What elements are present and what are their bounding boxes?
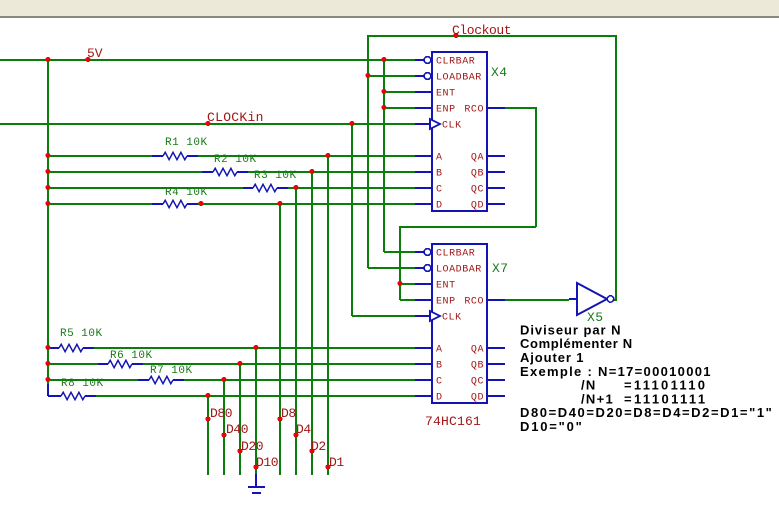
junction left rail / row R4 xyxy=(45,201,50,206)
wire row R3 to X4 C xyxy=(288,187,415,189)
X7 pin QA stub xyxy=(488,347,505,349)
svg-text:CLRBAR: CLRBAR xyxy=(436,57,475,68)
junction row R8 / net D80 xyxy=(205,393,210,398)
X4 pin RCO stub xyxy=(488,107,505,109)
svg-text:A: A xyxy=(436,345,443,356)
resistor R7 10K xyxy=(138,379,149,381)
junction 5V rail / distribution vertical xyxy=(381,57,386,62)
svg-text:Exemple : N=17=00010001: Exemple : N=17=00010001 xyxy=(520,364,712,379)
IC X7 74HC161 body xyxy=(432,244,487,403)
svg-text:A: A xyxy=(436,153,443,164)
svg-text:LOADBAR: LOADBAR xyxy=(436,265,482,276)
svg-text:R3 10K: R3 10K xyxy=(254,170,297,182)
wire row R1 to X4 A xyxy=(198,155,415,157)
svg-text:C: C xyxy=(436,185,443,196)
svg-text:D40: D40 xyxy=(226,422,248,437)
node D80 anchor xyxy=(205,416,210,421)
junction left rail / row R3 xyxy=(45,185,50,190)
wire RCO feedback vertical xyxy=(399,226,401,300)
X4 pin ENP stub xyxy=(415,107,432,109)
wire RCO feedback horizontal xyxy=(400,226,536,228)
toolbar strip background xyxy=(0,0,779,16)
svg-text:D: D xyxy=(436,201,443,212)
wire row R7 to X7 C xyxy=(184,379,415,381)
wire X7 ENP branch xyxy=(400,299,415,301)
svg-text:/N: /N xyxy=(581,378,597,393)
junction RCO feedback / X7 ENT xyxy=(397,281,402,286)
wire net D40 vertical xyxy=(223,379,225,475)
wire row R4 to X4 D xyxy=(198,203,415,205)
junction row R7 / net D40 xyxy=(221,377,226,382)
junction row R5 / net D10 xyxy=(253,345,258,350)
svg-text:Ajouter 1: Ajouter 1 xyxy=(520,350,584,365)
svg-text:QB: QB xyxy=(471,169,484,180)
svg-text:ENT: ENT xyxy=(436,89,456,100)
resistor R8 10K xyxy=(48,395,61,397)
wire left rail lower blue elbow xyxy=(47,384,49,396)
wire row R2 left segment xyxy=(48,171,202,173)
ground symbol xyxy=(255,474,257,487)
svg-text:R6 10K: R6 10K xyxy=(110,350,153,362)
wire row R2 to X4 B xyxy=(248,171,415,173)
wire X4 ENT branch xyxy=(384,91,415,93)
svg-text:R8 10K: R8 10K xyxy=(61,378,104,390)
inverter X5 body xyxy=(577,283,607,315)
svg-text:Clockout: Clockout xyxy=(452,23,511,38)
svg-text:R5 10K: R5 10K xyxy=(60,328,103,340)
svg-text:RCO: RCO xyxy=(464,297,484,308)
X4 pin QB stub xyxy=(488,171,505,173)
wire X7 LOADBAR branch xyxy=(368,267,415,269)
junction 5V rail / left rail xyxy=(45,57,50,62)
X4 pin CLK stub with clock wedge xyxy=(415,123,430,125)
wire net D2 vertical xyxy=(311,171,313,475)
svg-text:X7: X7 xyxy=(492,261,509,276)
wire X7 CLK branch xyxy=(352,315,415,317)
wire net D1 vertical xyxy=(327,155,329,475)
svg-text:CLOCKin: CLOCKin xyxy=(207,110,264,125)
wire CLOCKin to X7 CLK vertical xyxy=(351,123,353,316)
wire X4 ENP branch xyxy=(384,107,415,109)
junction Clockout / X4 LOADBAR xyxy=(365,73,370,78)
svg-text:RCO: RCO xyxy=(464,105,484,116)
X7 pin LOADBAR stub with bubble xyxy=(415,267,424,269)
wire X7 CLRBAR branch xyxy=(384,251,415,253)
junction left rail / row R6 xyxy=(45,361,50,366)
wire X7 RCO to X5 input xyxy=(505,299,569,301)
svg-text:X4: X4 xyxy=(491,65,508,80)
resistor R6 10K xyxy=(98,363,108,365)
node D40 anchor xyxy=(221,432,226,437)
wire net D4 vertical xyxy=(295,187,297,475)
node Clockout label anchor xyxy=(453,33,458,38)
wire row R8 to X7 D xyxy=(96,395,415,397)
X7 pin B stub xyxy=(415,363,432,365)
svg-text:CLK: CLK xyxy=(442,121,462,132)
svg-text:QA: QA xyxy=(471,345,484,356)
svg-text:D80=D40=D20=D8=D4=D2=D1="1": D80=D40=D20=D8=D4=D2=D1="1" xyxy=(520,405,773,420)
X4 pin A stub xyxy=(415,155,432,157)
wire X4 LOADBAR branch xyxy=(368,75,415,77)
wire net D80 vertical xyxy=(207,395,209,475)
svg-text:D10: D10 xyxy=(256,455,278,470)
X7 pin QB stub xyxy=(488,363,505,365)
node 5V label anchor xyxy=(85,57,90,62)
junction row R4 / net D8 xyxy=(277,201,282,206)
wire Clockout to X7 LOADBAR vertical xyxy=(367,35,369,268)
node D8 anchor xyxy=(277,416,282,421)
X7 pin A stub xyxy=(415,347,432,349)
svg-text:ENP: ENP xyxy=(436,297,456,308)
X4 pin QD stub xyxy=(488,203,505,205)
wire Clockout horizontal xyxy=(368,35,616,37)
wire left 5V vertical rail xyxy=(47,59,49,385)
svg-text:B: B xyxy=(436,169,443,180)
svg-text:/N+1: /N+1 xyxy=(581,391,614,406)
junction row R2 / net D2 xyxy=(309,169,314,174)
X4 pin QC stub xyxy=(488,187,505,189)
wire row R6 to X7 B xyxy=(143,363,415,365)
svg-text:D10="0": D10="0" xyxy=(520,419,584,434)
wire row R4 left segment xyxy=(48,203,152,205)
junction left rail / row R1 xyxy=(45,153,50,158)
wire Clockout right vertical xyxy=(615,35,617,300)
junction left rail / row R2 xyxy=(45,169,50,174)
wire X7 ENT branch xyxy=(400,283,415,285)
svg-text:=11101111: =11101111 xyxy=(624,391,707,406)
svg-text:QD: QD xyxy=(471,201,484,212)
svg-text:74HC161: 74HC161 xyxy=(425,414,481,429)
wire row R6 left segment xyxy=(48,363,98,365)
svg-text:D2: D2 xyxy=(311,439,326,454)
junction 5V / X4 ENT xyxy=(381,89,386,94)
resistor R4 10K xyxy=(152,203,163,205)
node D4 anchor xyxy=(293,432,298,437)
X4 pin C stub xyxy=(415,187,432,189)
svg-text:D80: D80 xyxy=(210,406,232,421)
junction row R3 / net D4 xyxy=(293,185,298,190)
wire row R5 to X7 A xyxy=(94,347,415,349)
wire X4 RCO right vertical xyxy=(535,107,537,227)
X4 pin QA stub xyxy=(488,155,505,157)
node CLOCKin label anchor xyxy=(205,121,210,126)
junction CLOCKin / X7 CLK drop xyxy=(349,121,354,126)
svg-text:ENT: ENT xyxy=(436,281,456,292)
svg-text:R1 10K: R1 10K xyxy=(165,137,208,149)
wire CLOCKin horizontal xyxy=(0,123,415,125)
svg-text:QD: QD xyxy=(471,393,484,404)
junction row R4 mid xyxy=(198,201,203,206)
X7 pin QD stub xyxy=(488,395,505,397)
wire 5V rail horizontal xyxy=(0,59,415,61)
svg-text:B: B xyxy=(436,361,443,372)
svg-text:5V: 5V xyxy=(87,46,103,61)
resistor R5 10K xyxy=(48,347,59,349)
svg-text:C: C xyxy=(436,377,443,388)
junction row R1 / net D1 xyxy=(325,153,330,158)
toolbar bottom border xyxy=(0,16,779,18)
node D10 anchor xyxy=(253,464,258,469)
X7 pin C stub xyxy=(415,379,432,381)
junction left rail / row R5 xyxy=(45,345,50,350)
svg-text:QA: QA xyxy=(471,153,484,164)
X7 pin CLK stub with clock wedge xyxy=(415,315,430,317)
X7 pin D stub xyxy=(415,395,432,397)
X4 pin D stub xyxy=(415,203,432,205)
svg-text:R7 10K: R7 10K xyxy=(150,365,193,377)
wire net D10 vertical xyxy=(255,347,257,475)
svg-text:=11101110: =11101110 xyxy=(624,378,707,393)
svg-text:CLK: CLK xyxy=(442,313,462,324)
svg-text:Diviseur par N: Diviseur par N xyxy=(520,322,621,337)
svg-text:ENP: ENP xyxy=(436,105,456,116)
node D2 anchor xyxy=(309,448,314,453)
svg-text:D20: D20 xyxy=(241,439,263,454)
wire X5 output elbow xyxy=(612,299,617,301)
svg-text:Complémenter N: Complémenter N xyxy=(520,336,633,351)
resistor R1 10K xyxy=(152,155,163,157)
X7 pin QC stub xyxy=(488,379,505,381)
svg-text:D1: D1 xyxy=(329,455,344,470)
IC X4 74HC161 body xyxy=(432,52,487,211)
X4 pin B stub xyxy=(415,171,432,173)
resistor R2 10K xyxy=(202,171,213,173)
wire X4 RCO horizontal xyxy=(505,107,536,109)
svg-text:D4: D4 xyxy=(296,422,311,437)
svg-text:QC: QC xyxy=(471,377,484,388)
X4 pin CLRBAR stub with bubble xyxy=(415,59,424,61)
svg-text:D: D xyxy=(436,393,443,404)
svg-text:R2 10K: R2 10K xyxy=(214,154,257,166)
svg-text:LOADBAR: LOADBAR xyxy=(436,73,482,84)
X4 pin LOADBAR stub with bubble xyxy=(415,75,424,77)
svg-text:CLRBAR: CLRBAR xyxy=(436,249,475,260)
X7 pin RCO stub xyxy=(488,299,505,301)
resistor R3 10K xyxy=(243,187,253,189)
junction row R6 / net D20 xyxy=(237,361,242,366)
X4 pin ENT stub xyxy=(415,91,432,93)
node D20 anchor xyxy=(237,448,242,453)
wire row R3 left segment xyxy=(48,187,243,189)
wire row R1 left segment xyxy=(48,155,152,157)
svg-text:R4 10K: R4 10K xyxy=(165,187,208,199)
X7 pin CLRBAR stub with bubble xyxy=(415,251,424,253)
node D1 anchor xyxy=(325,464,330,469)
junction 5V / X4 ENP xyxy=(381,105,386,110)
wire net D8 vertical xyxy=(279,203,281,475)
wire 5V distribution vertical xyxy=(383,59,385,252)
junction left rail / row R7 xyxy=(45,377,50,382)
X7 pin ENP stub xyxy=(415,299,432,301)
svg-text:QB: QB xyxy=(471,361,484,372)
X7 pin ENT stub xyxy=(415,283,432,285)
wire net D20 vertical xyxy=(239,363,241,475)
svg-text:QC: QC xyxy=(471,185,484,196)
svg-text:D8: D8 xyxy=(281,406,296,421)
wire row R7 left segment xyxy=(48,379,138,381)
